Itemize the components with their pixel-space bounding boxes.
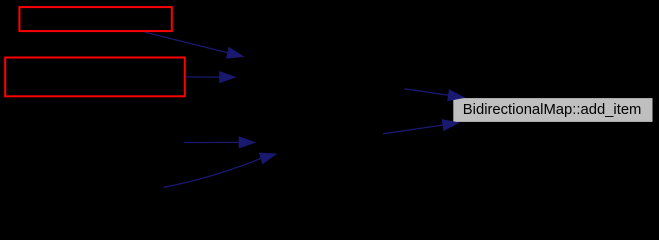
wire edge2: box2 -> middle node	[186, 76, 220, 78]
node: caller box 1 (red, truncated)	[19, 7, 171, 31]
svg-text:BidirectionalMap::add_item: BidirectionalMap::add_item	[463, 101, 642, 118]
wire edge5: middle node -> add_item	[404, 89, 448, 95]
edges (midnightblue)	[145, 32, 449, 187]
node: BidirectionalMap::add_item (current, gray)	[453, 98, 652, 122]
wire edge4: hidden node -> middle node 2	[164, 158, 262, 187]
arrowhead edge5	[448, 90, 464, 101]
node: caller box 2 (red, truncated, two lines)	[5, 58, 185, 97]
wire edge1: box1 -> middle node	[145, 32, 228, 53]
arrowhead edge2	[220, 72, 236, 83]
arrowhead edge6	[442, 120, 458, 131]
wire edge6: middle node 2 -> add_item	[383, 125, 443, 134]
arrowhead edge3	[239, 137, 255, 148]
arrowhead edge4	[260, 153, 277, 163]
wire edge3: hidden node -> middle node 2	[184, 141, 239, 143]
arrowhead edge1	[227, 48, 243, 59]
